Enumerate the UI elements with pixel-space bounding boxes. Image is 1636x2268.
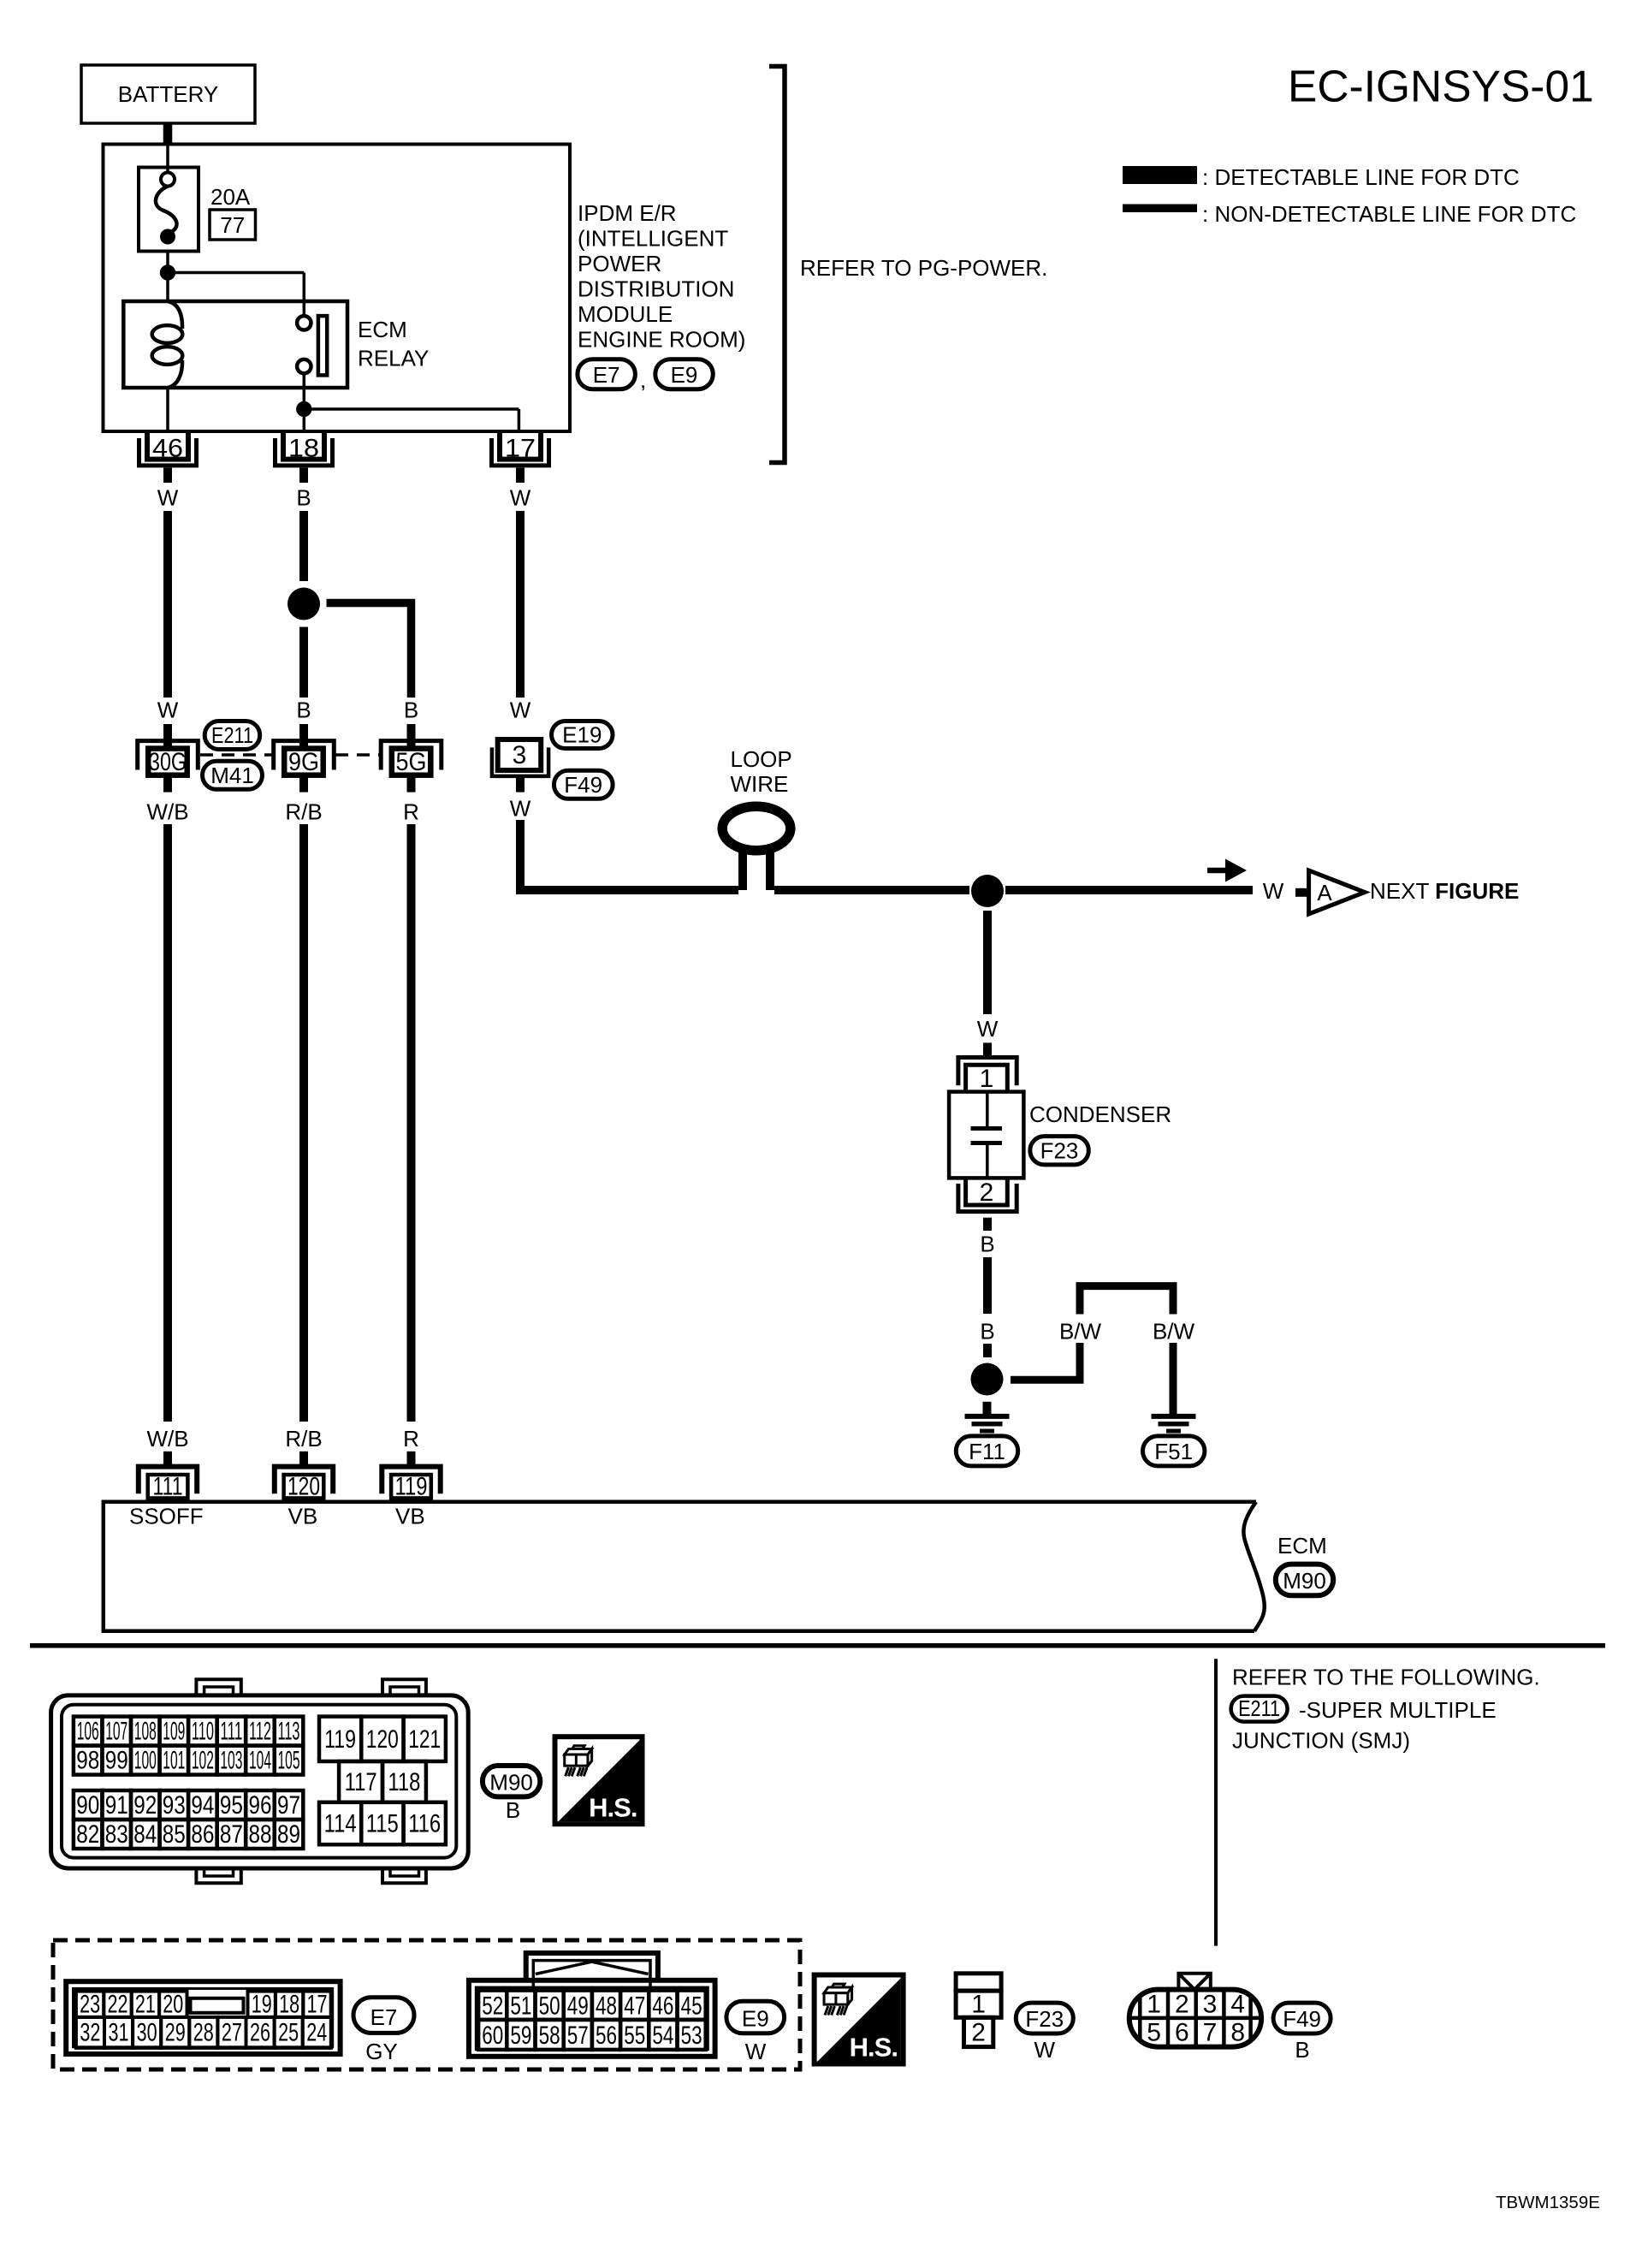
wire label W above condenser — [977, 1016, 999, 1042]
svg-text:118: 118 — [388, 1768, 420, 1796]
svg-text:W: W — [157, 485, 179, 511]
wire battery to IPDM E/R (thick stub) — [163, 123, 173, 145]
connector 5G (SMJ) — [381, 724, 442, 793]
connector F23 oval label — [1016, 2003, 1073, 2033]
svg-text:JUNCTION (SMJ): JUNCTION (SMJ) — [1232, 1728, 1410, 1754]
svg-text:112: 112 — [249, 1718, 271, 1746]
dashed option box — [53, 1940, 800, 2069]
svg-text:POWER: POWER — [578, 251, 661, 276]
svg-text:48: 48 — [596, 1992, 617, 2021]
svg-text:ECM: ECM — [358, 317, 407, 342]
svg-text:47: 47 — [624, 1992, 645, 2021]
svg-text:W: W — [510, 796, 531, 822]
svg-text:121: 121 — [408, 1725, 441, 1754]
fuse 20A 77 — [139, 168, 199, 252]
svg-text:W: W — [510, 698, 531, 723]
junction dot relay output — [296, 401, 311, 417]
svg-text:95: 95 — [220, 1791, 243, 1820]
wire stub to triangle A — [1295, 888, 1309, 897]
svg-text:117: 117 — [345, 1768, 377, 1796]
connector M90 color B — [506, 1797, 520, 1823]
svg-text:103: 103 — [220, 1747, 242, 1775]
wire label B/W right — [1153, 1319, 1195, 1345]
connector E9 color W — [745, 2039, 767, 2064]
svg-text:46: 46 — [152, 435, 183, 463]
svg-text:17: 17 — [505, 435, 536, 463]
NEXT FIGURE label — [1370, 878, 1519, 904]
ECM label — [1277, 1533, 1327, 1559]
svg-text:45: 45 — [681, 1992, 702, 2021]
wire label R above pin 119 — [403, 1426, 419, 1452]
wire stub above ground junction — [983, 1344, 992, 1357]
wire label R/B above pin 120 — [285, 1426, 322, 1452]
svg-text:55: 55 — [624, 2022, 645, 2050]
connector F23 color W — [1034, 2037, 1056, 2063]
svg-text:W: W — [510, 485, 531, 511]
svg-text:106: 106 — [77, 1718, 99, 1746]
svg-text:22: 22 — [108, 1991, 128, 2019]
svg-text:18: 18 — [279, 1991, 299, 2019]
wire label W before next figure — [1263, 878, 1284, 904]
wire label W above 30G — [157, 698, 179, 723]
condenser body F23 — [949, 1092, 1023, 1179]
svg-text:4: 4 — [1230, 1991, 1245, 2019]
section divider line — [1214, 1659, 1218, 1945]
dashed SMJ line 9G-5G — [335, 753, 381, 757]
svg-text:7: 7 — [1203, 2019, 1218, 2047]
svg-text:E211: E211 — [1238, 1695, 1280, 1721]
svg-text:96: 96 — [249, 1791, 272, 1820]
svg-text:84: 84 — [133, 1820, 157, 1849]
connector E19 oval — [552, 721, 613, 749]
wire stub junction to ground F11 — [983, 1402, 992, 1414]
svg-text:46: 46 — [652, 1992, 673, 2021]
wire label W/B above pin 111 — [146, 1426, 188, 1452]
svg-text:114: 114 — [324, 1810, 357, 1838]
svg-text:8: 8 — [1230, 2019, 1245, 2047]
svg-text:102: 102 — [192, 1747, 214, 1775]
wire relay output to pin 17 — [304, 409, 519, 431]
svg-text:W/B: W/B — [146, 799, 188, 825]
arrow direction marker — [1207, 859, 1247, 882]
svg-text:83: 83 — [105, 1820, 128, 1849]
condenser pin 2 — [958, 1178, 1017, 1211]
connector E7 oval — [578, 359, 636, 389]
svg-text:23: 23 — [80, 1991, 100, 2019]
svg-text:A: A — [1317, 880, 1332, 905]
legend: detectable line for DTC — [1123, 164, 1520, 190]
svg-text:REFER TO PG-POWER.: REFER TO PG-POWER. — [800, 255, 1047, 281]
svg-text:3: 3 — [513, 741, 527, 769]
REFER TO PG-POWER text — [800, 255, 1047, 281]
svg-text:: NON-DETECTABLE LINE FOR DTC: : NON-DETECTABLE LINE FOR DTC — [1202, 201, 1576, 227]
svg-text:2: 2 — [980, 1179, 994, 1207]
svg-text:VB: VB — [288, 1504, 318, 1529]
svg-text:101: 101 — [163, 1747, 185, 1775]
wire fuse to relay coil — [166, 252, 169, 302]
ECM box — [104, 1502, 1265, 1631]
svg-text:B: B — [980, 1319, 994, 1345]
junction dot below fuse — [160, 264, 175, 280]
svg-text:W: W — [1034, 2037, 1056, 2063]
svg-text:(INTELLIGENT: (INTELLIGENT — [578, 226, 728, 252]
branch wire B to 5G — [327, 603, 412, 698]
svg-text:17: 17 — [307, 1991, 328, 2019]
svg-text:E9: E9 — [742, 2006, 769, 2032]
pin 18 (IPDM) — [276, 431, 333, 483]
separator line — [30, 1643, 1605, 1648]
svg-text:28: 28 — [193, 2019, 214, 2047]
SUPER MULTIPLE JUNCTION text — [1232, 1697, 1497, 1754]
wire W connector3 to loop wire — [520, 820, 738, 890]
svg-text:F51: F51 — [1154, 1439, 1193, 1464]
relay contacts — [297, 316, 327, 375]
IPDM E/R label — [578, 200, 745, 353]
bracket refer to PG-POWER — [769, 67, 785, 463]
svg-text:M90: M90 — [1283, 1568, 1326, 1594]
junction dot main wire — [971, 875, 1004, 907]
battery — [81, 65, 255, 123]
svg-text:REFER TO THE FOLLOWING.: REFER TO THE FOLLOWING. — [1232, 1665, 1540, 1690]
svg-text:2: 2 — [971, 2019, 986, 2047]
wire label B (pin 18) — [296, 485, 311, 511]
H.S. logo (E7/E9) — [815, 1975, 904, 2064]
connector M41 oval — [203, 761, 263, 789]
svg-text:F49: F49 — [1283, 2006, 1321, 2032]
wire battery to fuse — [166, 145, 169, 173]
ECM RELAY label — [358, 317, 429, 371]
comma separator — [640, 367, 646, 393]
svg-text:R: R — [403, 799, 419, 825]
svg-text:94: 94 — [191, 1791, 214, 1820]
svg-text:B/W: B/W — [1153, 1319, 1195, 1345]
svg-text:49: 49 — [567, 1992, 589, 2021]
connector F23 oval — [1030, 1137, 1089, 1165]
svg-text:93: 93 — [163, 1791, 186, 1820]
svg-text:B: B — [1295, 2037, 1309, 2063]
B/W bridge wire — [1080, 1286, 1173, 1315]
condenser connector F23 pinout — [956, 1974, 1001, 2047]
svg-text:ECM: ECM — [1277, 1533, 1327, 1559]
ground junction dot — [971, 1363, 1004, 1396]
svg-text:85: 85 — [163, 1820, 186, 1849]
svg-text:RELAY: RELAY — [358, 346, 429, 371]
svg-text:DISTRIBUTION: DISTRIBUTION — [578, 276, 734, 302]
title EC-IGNSYS-01 — [1288, 62, 1594, 111]
svg-text:H.S.: H.S. — [850, 2033, 898, 2063]
wire label B above junction — [980, 1319, 994, 1345]
svg-text:ENGINE ROOM): ENGINE ROOM) — [578, 327, 745, 353]
svg-text:W: W — [1263, 878, 1284, 904]
wire W pin46 to 30G — [163, 511, 172, 698]
svg-text:B: B — [404, 698, 418, 723]
pin 119 (ECM) — [382, 1452, 440, 1501]
wire B/W to ground F51 — [1170, 1343, 1177, 1414]
svg-text:30G: 30G — [149, 748, 187, 776]
svg-text:24: 24 — [306, 2019, 327, 2047]
connector 30G (SMJ) — [138, 724, 199, 793]
connector E7 oval label — [353, 1998, 414, 2033]
connector E7 color GY — [365, 2039, 398, 2064]
svg-text:VB: VB — [395, 1504, 425, 1529]
svg-text:W: W — [157, 698, 179, 723]
wire W pin17 to connector 3 — [516, 511, 525, 698]
svg-text:W/B: W/B — [146, 1426, 188, 1452]
svg-text:87: 87 — [220, 1820, 243, 1849]
svg-text:1: 1 — [971, 1991, 986, 2019]
svg-text:120: 120 — [366, 1725, 399, 1754]
ground F51 oval — [1143, 1436, 1205, 1466]
pin 120 (ECM) — [275, 1452, 333, 1501]
wire label B above 5G — [404, 698, 418, 723]
svg-text:115: 115 — [366, 1810, 399, 1838]
svg-text:51: 51 — [510, 1992, 531, 2021]
svg-text:100: 100 — [134, 1747, 157, 1775]
connector E211 oval (SMJ note) — [1231, 1695, 1288, 1722]
svg-text:57: 57 — [567, 2022, 589, 2050]
wire relay contact to pin 18 — [303, 373, 306, 431]
svg-text:99: 99 — [105, 1747, 128, 1775]
svg-text:88: 88 — [249, 1820, 272, 1849]
svg-text:R/B: R/B — [285, 1426, 322, 1452]
fuse number 77 box — [210, 210, 256, 240]
svg-text:5G: 5G — [396, 748, 427, 776]
svg-text:TBWM1359E: TBWM1359E — [1496, 2193, 1600, 2212]
pin 46 (IPDM) — [139, 431, 197, 483]
svg-text:LOOP: LOOP — [731, 746, 792, 772]
ECM connector M90 pinout — [51, 1679, 469, 1883]
svg-text:32: 32 — [80, 2019, 100, 2047]
svg-text:110: 110 — [192, 1718, 214, 1746]
svg-text:BATTERY: BATTERY — [118, 81, 219, 107]
svg-text:91: 91 — [105, 1791, 128, 1820]
svg-text:B: B — [980, 1232, 994, 1257]
wire label B below condenser — [980, 1232, 994, 1257]
wire label W/B below 30G — [146, 799, 188, 825]
svg-text:B: B — [296, 698, 311, 723]
svg-text:97: 97 — [277, 1791, 300, 1820]
svg-text:20: 20 — [163, 1991, 183, 2019]
svg-text:54: 54 — [652, 2022, 673, 2050]
svg-text:56: 56 — [596, 2022, 617, 2050]
svg-text:31: 31 — [109, 2019, 129, 2047]
svg-text:82: 82 — [76, 1820, 99, 1849]
wire W/B 30G to ECM pin 111 — [163, 824, 172, 1422]
IPDM connector E7 pinout — [66, 1981, 340, 2054]
svg-text:F11: F11 — [969, 1439, 1005, 1464]
ground symbol F51 — [1152, 1416, 1196, 1431]
svg-text:MODULE: MODULE — [578, 301, 673, 327]
condenser pin 1 — [958, 1058, 1017, 1094]
svg-text:IPDM E/R: IPDM E/R — [578, 200, 677, 226]
wire label B/W left — [1059, 1319, 1102, 1345]
connector E9 oval label — [726, 2001, 785, 2033]
svg-text:109: 109 — [163, 1718, 185, 1746]
svg-text:W: W — [745, 2039, 767, 2064]
pin 111 (ECM) — [139, 1452, 197, 1501]
IPDM E/R box — [104, 145, 571, 432]
svg-text:1: 1 — [980, 1065, 994, 1093]
connector E211 oval — [204, 721, 260, 750]
svg-text:B: B — [506, 1797, 520, 1823]
svg-text:9G: 9G — [288, 748, 319, 776]
dashed SMJ line 30G-9G — [200, 753, 273, 757]
svg-text:104: 104 — [249, 1747, 271, 1775]
svg-text:111: 111 — [220, 1718, 242, 1746]
svg-text:6: 6 — [1175, 2019, 1189, 2047]
wire junction to relay contact — [168, 273, 304, 318]
wire stub to condenser pin 1 — [983, 1042, 992, 1057]
svg-text:NEXT FIGURE: NEXT FIGURE — [1370, 878, 1519, 904]
svg-text:E7: E7 — [593, 362, 620, 388]
svg-text:120: 120 — [287, 1473, 320, 1501]
loop connector F49 pinout — [1129, 1974, 1261, 2047]
svg-text:SSOFF: SSOFF — [129, 1504, 204, 1529]
LOOP WIRE label — [731, 746, 792, 797]
wire B to ground junction — [983, 1257, 992, 1314]
CONDENSER label — [1029, 1101, 1171, 1127]
wire R/B 9G to ECM pin 120 — [299, 824, 308, 1422]
wire label W (pin 46) — [157, 485, 179, 511]
connector F49 color B — [1295, 2037, 1309, 2063]
junction dot wire B — [287, 588, 320, 620]
svg-text:105: 105 — [278, 1747, 300, 1775]
connector 3 (E19/F49) — [492, 739, 548, 793]
svg-text:29: 29 — [165, 2019, 186, 2047]
svg-text:EC-IGNSYS-01: EC-IGNSYS-01 — [1288, 62, 1594, 111]
svg-text:R: R — [403, 1426, 419, 1452]
svg-text:50: 50 — [539, 1992, 560, 2021]
wire condenser to ground label B — [983, 1218, 992, 1231]
svg-text:M41: M41 — [210, 763, 254, 788]
fuse rating 20A — [210, 184, 251, 210]
svg-text:E19: E19 — [562, 722, 602, 748]
svg-text:53: 53 — [681, 2022, 702, 2050]
svg-text:60: 60 — [482, 2022, 503, 2050]
wire junction to B/W branch — [1011, 1343, 1080, 1380]
connector 9G (SMJ) — [274, 724, 335, 793]
legend: non-detectable line for DTC — [1123, 201, 1576, 227]
wire label W (pin 17) — [510, 485, 531, 511]
drawing number TBWM1359E — [1496, 2193, 1600, 2212]
wire junction to next figure — [1005, 886, 1253, 894]
svg-text:98: 98 — [76, 1747, 99, 1775]
svg-text:19: 19 — [252, 1991, 272, 2019]
svg-text:58: 58 — [539, 2022, 560, 2050]
svg-text:90: 90 — [76, 1791, 99, 1820]
svg-text:52: 52 — [482, 1992, 503, 2021]
loop wire symbol — [722, 806, 791, 890]
svg-text:: DETECTABLE LINE FOR DTC: : DETECTABLE LINE FOR DTC — [1202, 164, 1520, 190]
svg-text:5: 5 — [1147, 2019, 1161, 2047]
svg-text:CONDENSER: CONDENSER — [1029, 1101, 1171, 1127]
svg-text:119: 119 — [324, 1725, 356, 1754]
svg-text:3: 3 — [1203, 1991, 1218, 2019]
svg-text:107: 107 — [105, 1718, 127, 1746]
svg-text:86: 86 — [191, 1820, 214, 1849]
pin 17 (IPDM) — [492, 431, 549, 483]
svg-text:B: B — [296, 485, 311, 511]
connector M90 oval — [1276, 1564, 1333, 1596]
svg-text:E7: E7 — [370, 2004, 398, 2030]
triangle marker A — [1309, 870, 1365, 914]
svg-text:111: 111 — [153, 1473, 183, 1501]
IPDM connector E9 pinout — [469, 1953, 715, 2057]
svg-text:89: 89 — [277, 1820, 300, 1849]
wire label R below 5G — [403, 799, 419, 825]
svg-text:26: 26 — [250, 2019, 270, 2047]
wire junction to condenser — [983, 911, 992, 1014]
svg-text:,: , — [640, 367, 646, 393]
svg-text:21: 21 — [135, 1991, 156, 2019]
connector F49 oval label — [1273, 2003, 1331, 2033]
svg-text:30: 30 — [137, 2019, 157, 2047]
svg-text:M90: M90 — [489, 1769, 533, 1795]
connector F49 oval — [554, 770, 613, 799]
svg-text:F49: F49 — [564, 772, 602, 798]
svg-text:F23: F23 — [1040, 1138, 1079, 1164]
connector E9 oval — [655, 359, 714, 389]
svg-text:59: 59 — [510, 2022, 531, 2050]
ECM terminal SSOFF — [129, 1504, 204, 1529]
ECM relay box — [123, 301, 347, 388]
svg-text:92: 92 — [133, 1791, 157, 1820]
svg-text:18: 18 — [288, 435, 319, 463]
svg-text:GY: GY — [365, 2039, 398, 2064]
ground symbol F11 — [965, 1416, 1010, 1431]
wire B pin18 to 9G — [299, 511, 308, 698]
ECM terminal VB (119) — [395, 1504, 425, 1529]
wire R 5G to ECM pin 119 — [407, 824, 416, 1422]
svg-text:E211: E211 — [211, 722, 253, 748]
svg-text:B/W: B/W — [1059, 1319, 1102, 1345]
svg-text:H.S.: H.S. — [589, 1793, 637, 1823]
wire loop to junction — [774, 886, 969, 894]
ECM terminal VB (120) — [288, 1504, 318, 1529]
wire label W below connector 3 — [510, 796, 531, 822]
svg-text:W: W — [977, 1016, 999, 1042]
svg-text:2: 2 — [1175, 1991, 1189, 2019]
svg-text:R/B: R/B — [285, 799, 322, 825]
wire relay to pin 46 — [166, 388, 169, 431]
svg-text:27: 27 — [222, 2019, 242, 2047]
svg-text:F23: F23 — [1025, 2006, 1064, 2032]
svg-text:E9: E9 — [671, 362, 698, 388]
wire label B above 9G — [296, 698, 311, 723]
svg-text:77: 77 — [220, 212, 245, 238]
wire label W above connector 3 — [510, 698, 531, 723]
ground F11 oval — [956, 1436, 1017, 1466]
svg-text:108: 108 — [134, 1718, 157, 1746]
svg-text:25: 25 — [278, 2019, 299, 2047]
wire label R/B below 9G — [285, 799, 322, 825]
svg-text:116: 116 — [408, 1810, 441, 1838]
svg-text:113: 113 — [278, 1718, 300, 1746]
svg-text:1: 1 — [1147, 1991, 1161, 2019]
relay coil — [152, 301, 183, 388]
REFER TO THE FOLLOWING text — [1232, 1665, 1540, 1690]
H.S. logo (M90) — [555, 1737, 643, 1824]
svg-text:-SUPER MULTIPLE: -SUPER MULTIPLE — [1299, 1697, 1497, 1723]
svg-text:119: 119 — [395, 1473, 428, 1501]
connector M90 oval label — [483, 1766, 540, 1796]
svg-text:20A: 20A — [210, 184, 251, 210]
svg-text:WIRE: WIRE — [731, 771, 789, 797]
